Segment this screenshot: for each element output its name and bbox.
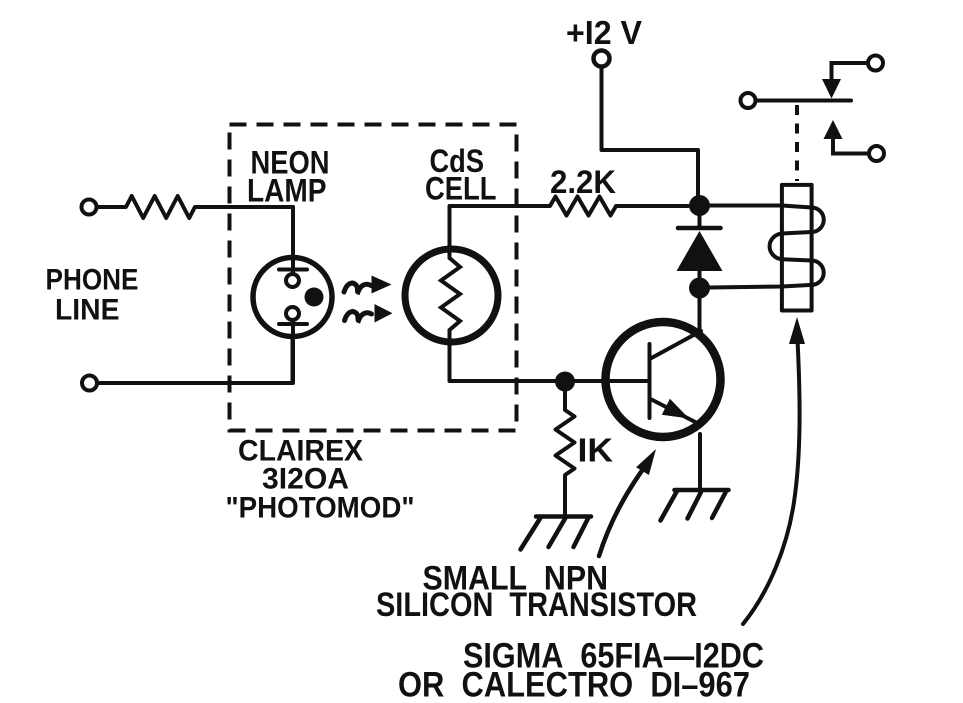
svg-text:SILICON TRANSISTOR: SILICON TRANSISTOR xyxy=(376,586,697,624)
svg-text:OR CALECTRO DI–967: OR CALECTRO DI–967 xyxy=(398,666,750,703)
svg-text:LINE: LINE xyxy=(55,294,120,327)
svg-text:CELL: CELL xyxy=(425,171,497,207)
svg-text:LAMP: LAMP xyxy=(247,173,327,209)
svg-text:2.2K: 2.2K xyxy=(550,164,616,200)
svg-text:+I2 V: +I2 V xyxy=(566,14,642,51)
svg-text:PHONE: PHONE xyxy=(46,264,139,297)
svg-text:"PHOTOMOD": "PHOTOMOD" xyxy=(226,492,415,525)
svg-text:IK: IK xyxy=(578,432,614,469)
